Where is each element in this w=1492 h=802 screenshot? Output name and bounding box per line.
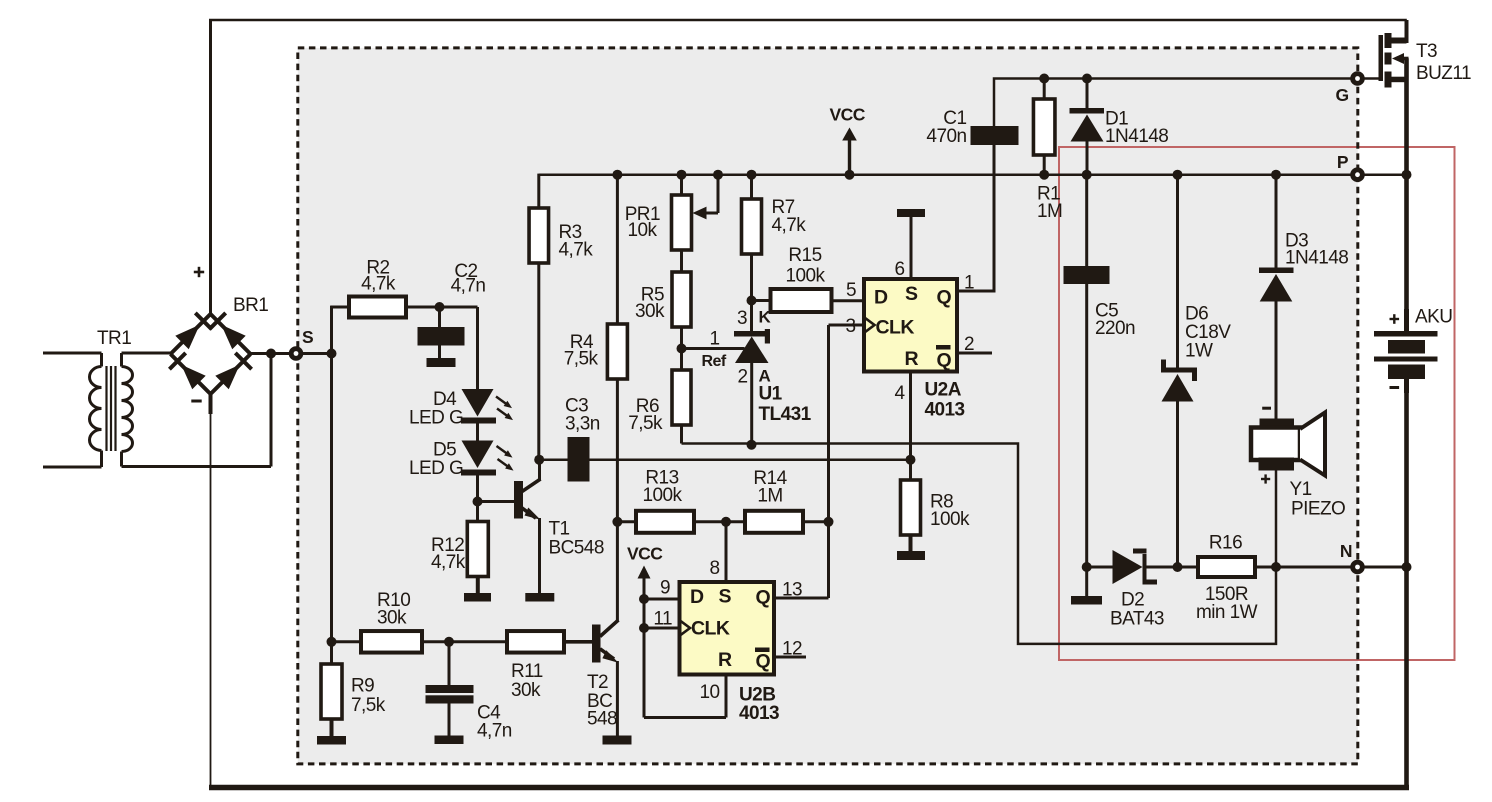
svg-text:10: 10: [699, 682, 719, 703]
wire U1 ref input: [682, 347, 745, 350]
wire R8 top lead: [909, 460, 912, 480]
svg-text:4,7k: 4,7k: [559, 240, 594, 261]
wire R10 left lead: [332, 640, 362, 643]
op-amp U1 TL431 symbol: [734, 331, 768, 337]
junction U1 anode: [747, 440, 757, 450]
junction S pin node: [721, 517, 731, 527]
power VCC arrow (U2B): [643, 578, 646, 718]
wire R12 to ground: [476, 577, 480, 594]
svg-text:Q: Q: [937, 287, 952, 309]
junction D1 top: [1082, 74, 1092, 84]
svg-text:BR1: BR1: [233, 295, 268, 316]
wire R1 top lead: [1043, 79, 1046, 100]
junction frame at P: [1402, 170, 1412, 180]
svg-text:3,3n: 3,3n: [565, 414, 600, 435]
wire R7 bottom to K node: [750, 254, 753, 331]
wire R15 to U2A pin5: [832, 299, 865, 302]
svg-text:1M: 1M: [1037, 201, 1062, 222]
diode D3 1N4148: [1275, 175, 1278, 268]
resistor R10: [361, 631, 422, 653]
resistor R8: [901, 480, 921, 535]
junction D6 bottom: [1173, 562, 1183, 572]
junction T1 base node: [473, 497, 483, 507]
svg-text:D: D: [874, 287, 888, 309]
wire R6 bottom to anode bus: [680, 425, 683, 444]
zener diode D6 C18V: [1176, 175, 1179, 368]
resistor R14: [745, 511, 803, 533]
svg-text:30k: 30k: [635, 301, 665, 322]
bridge rectifier BR1: [162, 306, 218, 362]
transformer TR1 secondary winding: [122, 352, 171, 355]
wire PR1 to R5: [680, 250, 683, 272]
wire R8 to ground: [909, 535, 913, 551]
svg-text:30k: 30k: [377, 608, 407, 629]
ground (C4): [435, 736, 464, 745]
resistor R3: [529, 208, 549, 263]
svg-text:R16: R16: [1209, 533, 1242, 554]
flip-flop U2A 4013 box: [864, 279, 957, 372]
svg-text:BUZ11: BUZ11: [1416, 63, 1471, 84]
svg-text:VCC: VCC: [830, 105, 866, 125]
wire bridge minus to bottom frame: [210, 414, 212, 788]
wire U2B pin8: [725, 522, 728, 582]
label - (battery): [1390, 386, 1400, 389]
ground (C2): [427, 358, 456, 367]
node N terminal: [1350, 560, 1365, 575]
svg-text:4,7k: 4,7k: [361, 274, 396, 295]
svg-text:7,5k: 7,5k: [628, 413, 663, 434]
transformer TR1 primary winding: [43, 352, 102, 355]
svg-text:T2: T2: [587, 672, 608, 693]
svg-text:100k: 100k: [642, 485, 682, 506]
svg-text:1M: 1M: [757, 486, 782, 507]
resistor R1: [1033, 99, 1055, 155]
wire top frame (+ rail to T3 drain): [209, 19, 1407, 22]
ground (R9): [317, 736, 346, 745]
junction C5/D2/ground: [1082, 562, 1092, 572]
junction R7 top: [747, 170, 757, 180]
junction D3 top: [1271, 170, 1281, 180]
wire R4 top lead: [616, 175, 619, 324]
wire U2A pin4: [909, 372, 912, 460]
wire G to T3 gate: [1364, 77, 1381, 80]
wire U2A pin3: [829, 324, 865, 327]
junction T1 collector node: [534, 455, 544, 465]
svg-text:6: 6: [894, 259, 904, 280]
resistor R9: [321, 664, 342, 719]
svg-text:CLK: CLK: [876, 317, 915, 339]
ground (T1): [525, 593, 554, 602]
ground (R8): [897, 551, 925, 560]
svg-text:S: S: [302, 327, 313, 347]
wire U2B pin11: [644, 627, 680, 630]
wire base node to T1: [478, 500, 515, 503]
wire U2A pin2 stub: [957, 352, 992, 355]
svg-text:548: 548: [587, 709, 617, 730]
resistor R12: [467, 522, 488, 577]
svg-text:G: G: [1335, 85, 1348, 105]
wire R16 to N: [1255, 566, 1351, 569]
junction VCC arrow: [845, 170, 855, 180]
wire collector node to C3: [539, 458, 567, 461]
resistor R6: [672, 370, 691, 425]
flip-flop U2B 4013 box: [680, 582, 775, 675]
svg-text:R: R: [718, 649, 732, 671]
svg-text:100k: 100k: [930, 509, 970, 530]
wire S column down to R9/R10: [330, 354, 333, 665]
svg-text:470n: 470n: [926, 126, 966, 147]
label + (battery): [1390, 318, 1400, 320]
svg-text:R: R: [905, 348, 919, 370]
svg-text:min 1W: min 1W: [1196, 602, 1258, 623]
svg-text:7,5k: 7,5k: [564, 349, 599, 370]
clock wedge U2B: [680, 620, 691, 636]
svg-text:T3: T3: [1416, 41, 1437, 62]
junction R13 left node: [612, 517, 622, 527]
node G terminal: [1350, 71, 1365, 86]
svg-text:LED G: LED G: [409, 408, 463, 429]
wire C2 to ground: [438, 346, 441, 359]
junction R1 top: [1039, 74, 1049, 84]
wire R4 bottom to T2 collector: [616, 379, 619, 621]
junction C4 top: [444, 637, 454, 647]
svg-text:12: 12: [782, 639, 802, 660]
svg-text:Q: Q: [756, 587, 771, 609]
capacitor C4: [448, 642, 451, 685]
wire anode bus (U1/R6 to piezo): [682, 444, 1277, 644]
svg-text:TL431: TL431: [759, 404, 812, 425]
wire U2B pin9: [644, 598, 680, 601]
junction N frame: [1402, 562, 1412, 572]
wire D5 to base node: [476, 476, 479, 522]
wire R3 bottom to collector node: [537, 263, 540, 460]
svg-text:10k: 10k: [628, 220, 658, 241]
wire R13-R14 node: [694, 520, 745, 523]
wire C2 node down to D4: [476, 307, 479, 389]
wire R2 to C2 node: [406, 306, 478, 309]
capacitor C1: [971, 126, 1019, 145]
wire bridge minus stub: [209, 394, 213, 414]
svg-text:13: 13: [782, 580, 802, 601]
svg-text:100k: 100k: [785, 266, 825, 287]
svg-text:1N4148: 1N4148: [1285, 248, 1348, 269]
svg-text:AKU: AKU: [1415, 307, 1452, 328]
svg-text:TR1: TR1: [97, 328, 131, 349]
wire R10 to R11: [422, 640, 507, 643]
junction ref node: [677, 344, 687, 354]
potentiometer PR1: [672, 195, 692, 250]
node S terminal: [289, 346, 304, 361]
power VCC arrow (main): [848, 140, 851, 175]
wire R7 top lead: [750, 175, 753, 199]
svg-text:R11: R11: [511, 661, 543, 682]
wire D4 to D5: [476, 424, 479, 441]
svg-text:1W: 1W: [1185, 341, 1213, 362]
svg-text:5: 5: [846, 280, 856, 301]
capacitor C2: [438, 307, 441, 327]
svg-text:Q: Q: [756, 651, 771, 673]
label + (bridge positive): [194, 271, 204, 274]
svg-text:R15: R15: [788, 245, 821, 266]
node dot bridge output: [266, 349, 276, 359]
svg-text:U2A: U2A: [925, 380, 962, 401]
resistor R2: [349, 297, 406, 318]
resistor R13: [636, 511, 694, 533]
transistor T2 BC548: [592, 625, 601, 663]
svg-text:P: P: [1337, 152, 1349, 172]
junction PR1 wiper top: [713, 170, 723, 180]
wire C4 to ground: [448, 704, 451, 736]
wire right frame battery to bottom frame: [1404, 379, 1409, 790]
svg-text:PIEZO: PIEZO: [1291, 499, 1345, 520]
svg-text:8: 8: [709, 558, 719, 579]
ground (R12): [464, 593, 491, 602]
wire C3 to R8 node: [590, 458, 911, 461]
svg-text:4013: 4013: [925, 400, 965, 421]
wire C5 ground stem: [1085, 567, 1088, 596]
svg-text:Q: Q: [937, 350, 952, 372]
svg-text:4: 4: [894, 383, 905, 404]
resistor R5: [672, 272, 691, 327]
wire R3 top to VCC bus: [537, 174, 540, 208]
junction D6 top: [1173, 170, 1183, 180]
svg-text:2: 2: [964, 334, 974, 355]
junction R8 top: [906, 455, 916, 465]
wire R11 to T2 base: [564, 640, 592, 644]
resistor R15: [771, 289, 832, 312]
junction C2 node: [435, 302, 445, 312]
wire S column up to R2: [330, 306, 333, 354]
svg-text:Y1: Y1: [1290, 479, 1312, 500]
ground (T2): [603, 736, 632, 745]
wire R13 left lead: [617, 520, 636, 523]
svg-text:LED G: LED G: [409, 458, 463, 479]
svg-text:4,7n: 4,7n: [451, 276, 486, 297]
wire right frame T3 source down to battery: [1404, 58, 1409, 331]
wire R15 left lead: [752, 299, 771, 302]
svg-text:3: 3: [737, 308, 747, 329]
resistor R11: [507, 631, 564, 653]
svg-text:7,5k: 7,5k: [351, 695, 386, 716]
clock wedge U2A: [864, 317, 875, 333]
junction K node: [747, 296, 757, 306]
junction S column: [327, 349, 337, 359]
dashed control-unit box (gray area): [298, 48, 1358, 764]
svg-text:S: S: [719, 586, 732, 608]
svg-text:1N4148: 1N4148: [1105, 126, 1168, 147]
svg-text:S: S: [905, 283, 918, 305]
wire U2B pin10 route: [644, 716, 726, 719]
svg-text:2: 2: [737, 367, 747, 388]
LED D5: [462, 441, 494, 469]
svg-text:BAT43: BAT43: [1110, 609, 1164, 630]
svg-text:CLK: CLK: [691, 618, 730, 640]
junction U2B pin9 node: [639, 594, 649, 604]
svg-text:9: 9: [660, 578, 670, 599]
svg-text:K: K: [759, 308, 772, 327]
wire left frame + lead to bridge: [209, 20, 212, 314]
wire U2B pin12 stub: [774, 656, 806, 659]
svg-text:D2: D2: [1121, 590, 1144, 611]
junction R16 right / piezo: [1271, 562, 1281, 572]
svg-text:D: D: [690, 586, 704, 608]
battery AKU: [1374, 331, 1438, 337]
red highlighted sub-circuit box: [1059, 147, 1455, 660]
svg-text:11: 11: [653, 609, 672, 630]
wire R5 to ref node: [680, 327, 683, 370]
junction R4 top: [612, 170, 622, 180]
wire N to battery column: [1364, 566, 1407, 569]
wire bridge output to S node: [251, 352, 333, 355]
svg-text:Ref: Ref: [702, 353, 727, 370]
junction R1 bottom: [1039, 170, 1049, 180]
diode D2 BAT43: [1087, 566, 1113, 569]
dashed border of control-unit box: [298, 48, 1358, 764]
svg-text:N: N: [1340, 541, 1352, 561]
wire U2A pin1 (Q) to C1: [957, 290, 994, 293]
junction R10 left node: [327, 637, 337, 647]
resistor R7: [742, 199, 762, 254]
diode D1 1N4148: [1070, 108, 1105, 114]
transformer TR1 core: [105, 366, 107, 451]
resistor R16: [1198, 557, 1255, 577]
wire R14 right lead: [803, 520, 829, 523]
wire VCC bus: [539, 173, 1407, 176]
wire R1 bottom lead: [1043, 155, 1046, 175]
svg-text:4,7k: 4,7k: [431, 552, 466, 573]
svg-text:4,7k: 4,7k: [772, 215, 807, 236]
svg-text:VCC: VCC: [627, 544, 663, 564]
LED D4: [462, 389, 494, 417]
wire secondary bottom to bridge right node: [122, 465, 272, 468]
wiper arrow PR1: [717, 175, 720, 213]
svg-text:R9: R9: [351, 676, 374, 697]
wire gate drive (Q1 to C1 to G): [957, 145, 994, 291]
ground (C5): [1071, 596, 1102, 605]
svg-text:U1: U1: [759, 384, 783, 405]
wire right frame T3 drain segment: [1405, 20, 1409, 43]
svg-text:220n: 220n: [1095, 318, 1135, 339]
node P terminal: [1350, 167, 1365, 182]
wire U2B pin13 (Q): [774, 597, 829, 600]
label - (bridge negative): [191, 400, 201, 403]
pin tie-high bar (U2A pin 6): [897, 209, 925, 217]
svg-text:4013: 4013: [739, 703, 779, 724]
wire PR1 top lead: [680, 175, 683, 195]
transistor T3 BUZ11: [1379, 35, 1384, 81]
capacitor C3: [568, 437, 590, 482]
junction PR1 top: [677, 170, 687, 180]
resistor R4: [607, 324, 627, 379]
svg-text:30k: 30k: [511, 680, 541, 701]
junction D1 bottom / C5 top: [1082, 170, 1092, 180]
transistor T1 BC548: [514, 481, 523, 519]
junction U2B pin11 node: [639, 623, 649, 633]
svg-text:T1: T1: [549, 519, 570, 540]
capacitor C5: [1085, 175, 1088, 266]
svg-text:1: 1: [709, 329, 719, 350]
svg-text:BC548: BC548: [549, 538, 604, 559]
wire bottom frame: [209, 785, 1409, 791]
junction R14 right node: [824, 517, 834, 527]
wire R9 to ground: [330, 719, 334, 736]
svg-text:4,7n: 4,7n: [477, 721, 512, 742]
piezo Y1: [1262, 407, 1271, 410]
